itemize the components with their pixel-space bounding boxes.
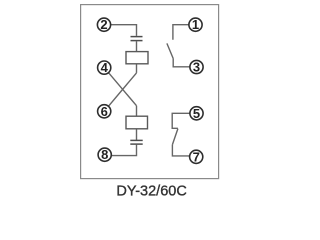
terminal 4 [98, 60, 111, 75]
svg-text:6: 6 [101, 104, 108, 119]
wire contact K2 to terminal 7 [172, 145, 196, 156]
wire diagonal coil KA1 to terminal 6 [104, 73, 136, 111]
terminal 8 [98, 147, 111, 162]
wire terminal 5 to contact K2 [172, 113, 196, 128]
terminal 5 [190, 106, 203, 121]
terminal 7 [190, 149, 203, 164]
contact K1 blade [167, 43, 173, 58]
contact K2 blade [172, 129, 178, 145]
svg-text:3: 3 [193, 60, 200, 75]
wire cap C2 to terminal 8 [105, 145, 137, 156]
wire contact K1 to terminal 3 [173, 59, 196, 67]
wire cap C1 to coil KA1 [136, 41, 138, 51]
terminal 3 [190, 60, 203, 75]
svg-text:2: 2 [100, 17, 107, 32]
svg-text:1: 1 [192, 17, 199, 32]
wire stub into coil KA2 [136, 106, 138, 117]
wire coil KA1 stub down [136, 64, 138, 73]
terminal 1 [189, 17, 202, 32]
svg-text:7: 7 [193, 149, 200, 164]
terminal 6 [98, 104, 111, 119]
coil KA1 [126, 52, 148, 64]
coil KA2 [126, 116, 148, 129]
wire terminal 1 to contact K1 [173, 25, 196, 40]
svg-text:8: 8 [101, 147, 108, 162]
wire terminal2 to cap C1 [104, 25, 137, 36]
wire coil KA2 to cap C2 [136, 129, 138, 140]
terminal 2 [97, 17, 110, 32]
svg-text:4: 4 [101, 60, 109, 75]
capacitor C2 [130, 140, 142, 144]
svg-text:DY-32/60C: DY-32/60C [116, 184, 186, 200]
wire diagonal terminal 4 to coil KA2 [104, 68, 136, 106]
svg-text:5: 5 [193, 106, 200, 121]
enclosure border frame [81, 5, 219, 179]
capacitor C1 [131, 37, 143, 41]
